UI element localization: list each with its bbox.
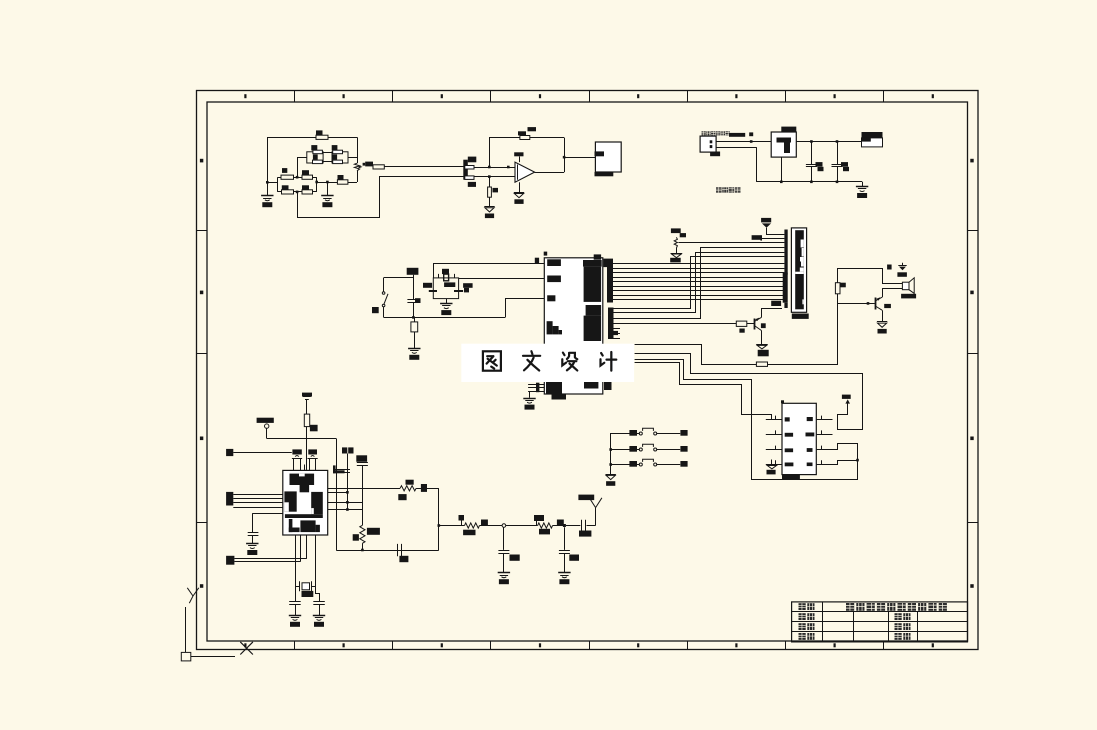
transistor Q1 <box>754 319 756 330</box>
wire <box>313 191 317 193</box>
wire <box>327 182 337 184</box>
wire <box>756 181 862 183</box>
wire <box>328 492 348 494</box>
wire <box>294 191 303 193</box>
capacitor C9 <box>454 290 463 292</box>
wire <box>506 525 538 527</box>
op-amp U2 <box>515 162 535 182</box>
wire <box>530 137 564 139</box>
capacitor C13 <box>295 586 297 602</box>
label <box>702 131 706 135</box>
pin label <box>752 235 761 240</box>
wire <box>348 182 357 184</box>
node label <box>257 418 274 423</box>
node <box>266 181 269 184</box>
node circle <box>502 524 506 528</box>
port label <box>226 556 234 565</box>
resistor R2 <box>281 175 294 179</box>
IC U1 pin column <box>607 259 613 303</box>
ground <box>414 332 416 348</box>
regulator U4 <box>771 132 796 157</box>
wire <box>838 303 875 305</box>
wire <box>384 277 414 279</box>
ground <box>252 535 254 543</box>
port label <box>226 492 233 506</box>
wire <box>614 323 737 325</box>
wire <box>747 323 754 325</box>
wire <box>781 157 783 182</box>
wire <box>294 177 303 179</box>
ground <box>761 339 763 345</box>
wire <box>761 331 763 339</box>
capacitor C11 <box>308 449 317 454</box>
node <box>296 191 299 194</box>
ground <box>503 553 505 572</box>
label <box>415 298 421 303</box>
node <box>609 448 612 451</box>
capacitor C14 <box>316 586 320 602</box>
ground <box>862 182 864 186</box>
transistor Q2 <box>875 298 877 310</box>
wire <box>796 141 861 143</box>
node <box>326 181 329 184</box>
wire <box>434 264 545 278</box>
switch S2 <box>611 449 640 451</box>
power pin <box>519 157 521 163</box>
ground <box>446 299 448 304</box>
wire <box>838 269 903 284</box>
bus wires <box>233 494 282 496</box>
potentiometer RP2 <box>671 228 681 233</box>
wire <box>614 257 785 309</box>
IC U1 left bottom pins <box>528 384 544 386</box>
resistor R12 <box>756 362 767 366</box>
wire <box>234 561 300 563</box>
IC U1 <box>544 258 603 394</box>
capacitor C15 <box>342 447 347 453</box>
resistor R3 <box>302 175 313 179</box>
wire <box>298 158 307 178</box>
label 审核 <box>799 633 806 640</box>
optocoupler U6 <box>782 403 816 474</box>
resistor R7 <box>373 165 384 169</box>
wire <box>295 535 297 586</box>
wire <box>298 177 380 218</box>
crystal Y1 <box>442 269 449 274</box>
wire <box>267 438 337 440</box>
ground <box>771 460 773 465</box>
label 班级 <box>895 613 902 620</box>
wire <box>278 177 281 179</box>
U6 pins <box>766 419 782 421</box>
title text <box>846 603 854 611</box>
resistor R11 <box>736 321 747 326</box>
arrow <box>845 399 850 403</box>
wire <box>716 147 756 149</box>
wire <box>323 152 332 154</box>
connector J4 <box>595 142 621 172</box>
wire <box>300 535 302 561</box>
potentiometer RP1 <box>354 163 359 171</box>
node <box>750 140 753 143</box>
wire <box>328 509 363 511</box>
node <box>315 181 318 184</box>
RF module U5 <box>791 228 806 312</box>
wire <box>553 525 563 527</box>
wire <box>833 461 858 465</box>
wire <box>439 525 465 527</box>
resistor R15 <box>400 486 416 491</box>
wire <box>610 433 612 474</box>
wire <box>328 137 357 139</box>
capacitor C20 <box>564 527 566 550</box>
resistor R16 <box>360 525 365 543</box>
wire <box>357 137 359 163</box>
wire <box>882 288 902 290</box>
wire <box>566 525 581 527</box>
wire <box>564 157 595 159</box>
capacitor C8 <box>429 290 437 292</box>
node <box>867 302 870 305</box>
ground <box>295 605 297 615</box>
capacitor C7 <box>413 275 415 300</box>
capacitor C2 <box>837 142 839 165</box>
wire <box>480 525 503 527</box>
capacitor C17 <box>397 544 399 556</box>
bus wires <box>613 263 784 265</box>
switch S4 <box>383 278 385 292</box>
crystal circuit box <box>433 278 458 299</box>
label <box>749 132 753 136</box>
resistor R9 <box>489 177 491 187</box>
node <box>412 316 415 319</box>
resistor R4 <box>282 190 294 194</box>
wire <box>234 558 307 560</box>
node <box>563 156 566 159</box>
wire <box>614 248 785 319</box>
wire <box>306 535 308 558</box>
wire <box>587 525 596 527</box>
wire <box>268 138 317 183</box>
wire <box>317 182 328 184</box>
wire w4 <box>635 363 782 420</box>
wire <box>882 288 884 297</box>
label 校核 <box>799 623 806 630</box>
node <box>488 166 491 169</box>
wire <box>475 167 516 169</box>
crystal Y2 <box>295 586 299 588</box>
capacitor C10 <box>292 449 301 454</box>
wire <box>459 278 545 280</box>
RC pair R3a/C6 <box>332 152 348 163</box>
wire <box>348 157 357 159</box>
wire <box>384 317 506 319</box>
wire w1 <box>635 345 757 365</box>
node <box>856 459 859 462</box>
wire <box>328 502 363 504</box>
ground <box>606 474 616 476</box>
wire <box>762 309 783 318</box>
wire <box>535 172 565 174</box>
node <box>810 140 813 143</box>
wire <box>614 253 785 313</box>
capacitor C18 <box>581 520 583 532</box>
wire <box>306 427 308 471</box>
wire <box>226 449 233 456</box>
node <box>296 176 299 179</box>
switch S1 <box>611 433 640 435</box>
node <box>563 524 566 527</box>
connector J2 <box>463 160 468 180</box>
label 日期 <box>895 633 902 640</box>
wire <box>506 299 545 318</box>
antenna ANT2 <box>589 498 595 508</box>
label 标题 <box>799 603 806 610</box>
wire w3 <box>635 360 858 480</box>
ground <box>564 553 566 572</box>
title block <box>792 602 968 642</box>
wire <box>315 535 317 586</box>
wire <box>267 182 277 184</box>
ground <box>327 182 329 195</box>
node <box>780 181 783 184</box>
MCU U7 <box>283 470 328 535</box>
battery BT1 <box>862 132 883 138</box>
capacitor C1 <box>811 142 813 165</box>
wire <box>336 550 439 552</box>
wire <box>416 488 439 490</box>
resistor R10 <box>411 322 418 332</box>
node circle <box>265 424 269 428</box>
RF module pin column <box>784 230 787 275</box>
pin stubs <box>614 328 621 330</box>
wire <box>278 191 282 193</box>
power symbol <box>302 393 312 397</box>
switch S3 <box>611 464 640 466</box>
resistor R13 <box>835 283 840 294</box>
wire <box>328 488 400 490</box>
power pin <box>407 268 419 275</box>
label 学号 <box>895 623 902 630</box>
connector J3 <box>700 136 716 152</box>
wire <box>316 177 318 192</box>
wire <box>362 543 364 550</box>
wire w2 <box>635 354 863 430</box>
ground <box>319 605 321 615</box>
node <box>361 549 364 552</box>
wire <box>490 138 520 168</box>
wire <box>266 428 268 438</box>
capacitor C12 <box>252 513 282 515</box>
wire <box>384 166 465 168</box>
resistor R18 <box>538 523 553 528</box>
wire <box>768 294 838 365</box>
wire <box>716 141 771 143</box>
resistor R17 <box>465 523 480 528</box>
capacitor C19 <box>503 527 505 550</box>
resistor R14 <box>304 414 309 427</box>
RC pair R2a/C5 <box>307 152 323 163</box>
resistor R8 <box>520 136 530 140</box>
watermark <box>461 344 634 382</box>
ground <box>267 182 269 195</box>
antenna ANT1 <box>761 218 771 223</box>
ground <box>882 310 884 322</box>
label 电源电路 <box>716 187 722 192</box>
resistor R6 <box>337 180 348 184</box>
capacitor C16 <box>356 455 367 462</box>
wire <box>475 176 516 178</box>
speaker LS1 <box>902 282 909 290</box>
resistor R1 <box>316 135 328 139</box>
resistor R5 <box>302 190 313 194</box>
power symbol <box>902 263 904 266</box>
ground <box>489 197 491 206</box>
ground <box>529 391 531 398</box>
label 设计 <box>799 613 806 620</box>
wire <box>379 176 465 178</box>
wire <box>313 177 317 179</box>
node <box>438 524 441 527</box>
ground <box>519 182 521 192</box>
